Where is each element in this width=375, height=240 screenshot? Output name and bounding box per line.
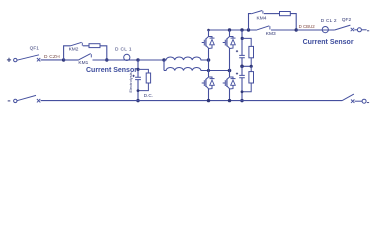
wire R4 bottom [242,83,251,92]
svg-text:Electrolysis: Electrolysis [128,72,133,92]
capacitor C2 branch top [241,30,243,55]
wire resistor to corner [290,14,296,30]
node + (positive input terminal label) [7,58,11,62]
wire node to sensor [296,29,334,31]
wire left bracket of precharge block [64,46,71,60]
contactor KM3 contact tick [269,26,271,29]
node (138,60) [136,58,139,61]
wire balance resistor branch lower [250,66,252,71]
node output - end mark [367,102,369,104]
wire to precharge resistor [83,45,89,47]
breaker QF2 pole 2 blade [342,94,354,101]
svg-text:KM3: KM3 [266,31,276,37]
wire dc+ rail [209,29,257,31]
svg-text:QF1: QF1 [30,46,40,52]
current sensor D CL2 circle [322,27,328,33]
svg-text:D CL 2: D CL 2 [321,18,337,24]
contactor KM4 blade (output precharge) [251,11,262,14]
node (229.5,100.6) [228,99,231,102]
resistor R3 (balance upper) [249,46,254,57]
node (208.5,100.6) [207,99,210,102]
svg-text:D CL 1: D CL 1 [115,47,132,53]
wire x to terminal [355,100,363,102]
capacitor C3 branch lower [241,66,243,75]
capacitor C3 polarity + [236,73,238,75]
node (242,66.3) [240,65,244,69]
resistor R4 (balance lower) [249,72,254,83]
svg-text:KM1: KM1 [78,60,88,66]
node (164,60) [162,58,165,61]
wire bottom rail [41,100,342,102]
contactor KM1 contact tick [90,54,92,57]
capacitor C1 plates [135,77,141,79]
node (251.2,66.3) [250,65,253,68]
svg-text:QF2: QF2 [342,17,352,23]
wire C3 to bottom rail [241,78,243,101]
wire KM3 to node [271,29,296,31]
current sensor D CL1 circle [124,54,130,60]
node - (negative input terminal label) [8,100,11,102]
terminal T1 (input + terminal circle) [14,58,17,61]
wire sensor node to inductors [138,59,164,61]
node (208.5,60) [207,58,211,62]
wire KM4 to resistor [264,13,280,15]
wire R3 bottom [250,58,252,67]
node (138,69.4) [136,68,139,71]
wire stack mid [242,58,251,67]
breaker QF1 pole 1 contact x [37,58,40,61]
wire KM1 to current sensor [93,59,139,61]
node (138,90.6) [137,89,140,92]
resistor R5 (output precharge) [280,12,291,16]
node (242,30) [240,28,243,31]
node (296.2,30) [295,28,298,31]
contactor KM1 blade (main) [78,54,91,61]
wire midpoint bus [209,70,230,72]
wire leg2 upper lead [229,30,231,36]
node (242,91.8) [241,90,244,93]
resistor R2 (bleed) [146,73,150,83]
wire leg2 mid [229,49,231,77]
capacitor C1 polarity + [132,75,134,77]
terminal T2 (output + terminal circle) [357,28,361,32]
wire balance resistor branch upper [242,38,251,46]
contactor KM4 contact tick [262,11,264,14]
breaker QF2 pole 1 blade [335,25,351,30]
contactor KM2 blade (precharge) [71,42,82,46]
breaker QF1 pole 1 blade [17,55,39,60]
wire leg1 mid [208,49,210,77]
breaker QF1 pole 2 contact x [37,99,40,102]
wire inductor bracket [163,60,165,71]
node (106.8,60) [105,58,108,61]
inductor L1 [164,57,209,60]
transistor Q2 (upper leg2 igbt+diode) [223,36,236,49]
contactor KM3 blade (output main) [256,26,269,30]
transistor Q4 (lower leg2 igbt+diode) [223,76,236,89]
node (208.5,30) [207,29,210,32]
wire main under precharge [64,59,78,61]
wire leg2 lower lead [229,89,231,101]
capacitor C1 branch (dc link electrolytic) [137,60,139,77]
node (242.4,38.4) [241,37,244,40]
node (208.5,70.5) [207,69,210,72]
wire to output terminal [354,29,357,31]
wire output precharge bracket [249,14,252,30]
node (248.5,30) [247,28,250,31]
capacitor C3 plates [239,75,245,77]
node (242,100.6) [240,99,243,102]
node (229.5,30) [228,28,231,31]
node (138,100.6) [136,99,139,102]
svg-text:D CZH: D CZH [44,54,60,60]
inductor L2 [164,67,209,70]
capacitor C2 plates [239,55,245,57]
transistor Q3 (lower leg1 igbt+diode) [202,76,215,89]
capacitor C2 polarity + [236,50,238,52]
node output + end mark [367,30,369,32]
svg-text:KM2: KM2 [69,47,79,53]
wire output stub [361,29,366,31]
breaker QF2 pole 1 contact x [351,28,354,31]
breaker QF2 pole 2 contact x [351,100,354,103]
node (229.5,70.5) [228,69,232,73]
svg-text:D.C.: D.C. [144,93,153,98]
contactor KM2 contact tick [81,43,83,46]
wire bleed resistor branch [138,69,148,73]
wire cap to bottom rail [137,80,139,101]
terminal T4 (output - terminal circle) [362,99,366,103]
resistor R1 (precharge) [89,44,100,48]
svg-text:Current Sensor: Current Sensor [303,39,354,46]
wire resistor to right bracket [100,46,107,60]
transistor Q1 (upper leg1 igbt+diode) [202,36,215,49]
svg-text:KM4: KM4 [257,15,267,21]
terminal T3 (input - terminal circle) [14,99,17,102]
wire QF1 to KM block [41,59,64,61]
wire leg1 lower lead [208,89,210,101]
wire bleed resistor bottom [138,83,148,91]
wire leg1 upper lead [208,30,210,36]
node (63.6,60) [62,58,65,61]
breaker QF1 pole 2 blade [17,95,36,100]
svg-text:D CBU2: D CBU2 [299,24,316,29]
